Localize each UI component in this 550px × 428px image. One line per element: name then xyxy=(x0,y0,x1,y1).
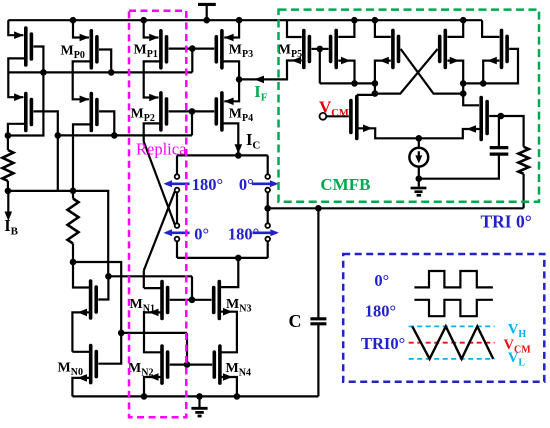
transistor MP4 xyxy=(220,93,224,130)
waveform dashed box xyxy=(343,254,544,382)
node VDD-stem xyxy=(203,17,210,24)
svg-text:0°: 0° xyxy=(374,271,389,290)
wire Tc5 drain xyxy=(483,61,499,84)
wire MP0 drain to T2 source xyxy=(73,61,92,99)
resistor R2 xyxy=(72,191,74,199)
wire MP2 drain xyxy=(144,123,161,141)
node MN0 gate bus xyxy=(118,330,125,337)
svg-text:MP4: MP4 xyxy=(229,106,253,124)
wire gate bus y73 xyxy=(8,71,192,73)
node VDD-MP1 xyxy=(140,17,147,24)
node VDD-MP3 xyxy=(236,17,243,24)
node VDD-Tc2 xyxy=(351,17,358,24)
wire MP1 gate xyxy=(169,47,193,49)
wire Tc5 gate diode xyxy=(463,49,518,84)
svg-text:0°: 0° xyxy=(239,175,254,194)
svg-text:180°: 180° xyxy=(192,175,223,194)
transistor Td2 (diff pair right) xyxy=(479,98,483,140)
switch contact L4 xyxy=(175,237,180,242)
wire MP4 drain / IC xyxy=(222,123,238,155)
svg-text:VCM: VCM xyxy=(319,97,349,119)
ground symbol bottom xyxy=(198,396,200,407)
wire switch lever B (to MN1 drain) xyxy=(144,191,175,270)
wire T1 gate to node B xyxy=(34,111,58,190)
node Tc5 drain xyxy=(480,80,487,87)
node D xyxy=(5,188,12,195)
arrow 180deg top-left xyxy=(166,183,190,186)
wire MP0 source xyxy=(73,20,89,37)
node IF xyxy=(236,76,243,83)
transistor MP0 xyxy=(90,31,94,68)
VDD supply symbol xyxy=(198,3,216,6)
svg-text:180°: 180° xyxy=(228,224,259,243)
node VDD-MP0 xyxy=(70,17,77,24)
wire MP5 gate xyxy=(312,48,320,50)
transistor T5 (NMOS above MN0) xyxy=(89,281,93,318)
ground symbol CMFB xyxy=(418,179,420,187)
wire Td2 gate to R3 xyxy=(501,116,524,147)
arrow 180deg bottom-right xyxy=(253,232,277,235)
svg-text:MN0: MN0 xyxy=(58,361,83,379)
wire MN3 source to MN4 drain xyxy=(219,312,237,353)
wire T5 gate xyxy=(98,276,108,299)
waveform 180deg square xyxy=(414,300,493,316)
wire T0 gate to bias bus and node A xyxy=(8,47,44,136)
node E xyxy=(70,188,77,195)
transistor MP3 xyxy=(220,31,224,68)
wire MN0 gate xyxy=(98,333,121,364)
node T0 gate on bus xyxy=(40,69,47,76)
wire MN0-gate bus y333 xyxy=(121,332,187,334)
svg-text:TRI0°: TRI0° xyxy=(361,334,405,353)
node VDD-Tc4 xyxy=(460,17,467,24)
arrow MP5 drain xyxy=(292,57,302,65)
wire MP1 source xyxy=(144,20,159,37)
svg-text:TRI 0°: TRI 0° xyxy=(481,212,532,232)
wire T0 source xyxy=(8,20,23,35)
wire T2 drain to node E xyxy=(73,124,91,190)
resistor R1 xyxy=(7,136,9,151)
wire cap2 top xyxy=(498,116,500,148)
transistor T1 (left cascode PMOS) xyxy=(24,94,28,131)
wire Tc4 gate cross-couple xyxy=(375,49,438,94)
wire Tc4 drain xyxy=(447,61,463,94)
svg-text:C: C xyxy=(289,311,302,331)
node MP1-MP3 gate xyxy=(189,45,196,52)
wire MN2 gate bus xyxy=(170,364,213,366)
svg-text:MN2: MN2 xyxy=(128,361,153,379)
svg-text:IB: IB xyxy=(4,216,18,238)
wire diode line y83 left xyxy=(320,82,375,84)
wire MN4 source xyxy=(220,377,237,396)
node MP5-Tc2 gate xyxy=(317,46,324,53)
wire tail to current source xyxy=(418,138,420,148)
node MP2-MP4 gate xyxy=(189,108,196,115)
switch contact R4 xyxy=(265,237,270,242)
wire cap2 bottom link xyxy=(419,154,499,179)
transistor T0 (top-left PMOS) xyxy=(24,28,28,65)
wire T1 drain to node A xyxy=(8,124,26,136)
wire link to MN0 gate bus xyxy=(73,262,121,333)
transistor T2 (second cascode PMOS) xyxy=(90,94,94,131)
node tail xyxy=(416,135,423,142)
node MN2 source on rail xyxy=(141,393,148,400)
wire switch bottom rail xyxy=(177,257,268,259)
current IB arrow xyxy=(7,191,9,217)
wire T5 drain xyxy=(73,262,91,288)
switch contact L1 xyxy=(175,174,180,179)
switch contact L3 xyxy=(175,223,180,228)
wire Tc3 drain xyxy=(375,61,391,94)
transistor MN2 xyxy=(160,346,164,383)
wire output line xyxy=(268,207,524,209)
svg-text:MP3: MP3 xyxy=(229,43,253,61)
wire Tc3 source xyxy=(375,20,391,37)
wire MP2 gate xyxy=(169,110,192,112)
node MN4 source on rail xyxy=(234,393,241,400)
wire Tc4 source xyxy=(447,20,463,37)
wire capacitor to ground rail xyxy=(317,324,319,397)
wire switch lever A (replica to 0deg switch) xyxy=(144,142,175,225)
current IF arrow xyxy=(254,76,264,84)
wire MP5 source xyxy=(287,20,302,37)
node R2 bottom xyxy=(70,259,77,266)
wire Tc2 drain xyxy=(338,61,354,84)
wire Td2 drain xyxy=(463,94,479,106)
wire MP4 gate xyxy=(192,110,214,112)
transistor Tc4 xyxy=(443,30,447,67)
wire Td2 gate xyxy=(489,115,501,117)
terminal VCM xyxy=(320,113,327,120)
svg-text:MP0: MP0 xyxy=(61,44,85,62)
wire MN1 gate bus xyxy=(170,299,212,301)
wire ground rail xyxy=(72,395,318,397)
switch contact R3 xyxy=(265,223,270,228)
svg-text:MP2: MP2 xyxy=(131,106,155,124)
svg-text:IF: IF xyxy=(254,82,267,104)
node diffpair left drain xyxy=(372,90,379,97)
transistor Tc2 xyxy=(334,30,338,67)
wire Td1 drain xyxy=(357,94,375,96)
wire IF line from MP5 drain xyxy=(239,61,302,80)
wire left switch column xyxy=(176,155,178,174)
wire MN2 source xyxy=(144,377,162,396)
transistor Td1 (diff pair left) xyxy=(355,97,359,139)
switch contact L2 xyxy=(175,188,180,193)
svg-text:IC: IC xyxy=(246,130,260,152)
transistor MN4 xyxy=(218,346,222,383)
wire Tc5 source xyxy=(482,20,499,37)
node ground tap xyxy=(196,393,203,400)
node switch bottom junction xyxy=(235,255,242,262)
wire bus y276 xyxy=(108,275,192,277)
node A xyxy=(5,132,12,139)
transistor MN3 xyxy=(218,282,222,319)
wire VDD rail xyxy=(8,19,482,21)
dashed level VL xyxy=(409,358,495,360)
wire Tc3 gate cross-couple xyxy=(401,49,464,94)
wire MP0 gate xyxy=(99,50,111,73)
wire Td1 source xyxy=(357,128,419,138)
wire MP1 drain to MP2 source xyxy=(144,61,161,97)
transistor MN0 xyxy=(89,346,93,383)
node MN2-MN4 gate xyxy=(184,361,191,368)
switch contact R2 xyxy=(265,188,270,193)
node MP0 gate on bus xyxy=(108,69,115,76)
svg-text:180°: 180° xyxy=(365,301,396,320)
current IC arrow xyxy=(235,144,243,154)
wire MN3 drain xyxy=(219,258,238,287)
svg-text:MP5: MP5 xyxy=(278,43,302,61)
wire Tc2 gate xyxy=(320,48,329,50)
transistor MP1 xyxy=(159,31,163,68)
waveform triangle xyxy=(412,326,493,359)
resistor R3 xyxy=(518,147,528,174)
CMFB dashed box xyxy=(279,10,540,202)
wire MP3 gate xyxy=(192,47,214,49)
svg-text:CMFB: CMFB xyxy=(320,175,370,194)
transistor MN1 xyxy=(160,282,164,319)
node C xyxy=(111,132,118,139)
wire current source to ground xyxy=(418,167,420,179)
wire MN1 source to MN2 drain xyxy=(144,312,162,352)
node IC junction xyxy=(235,152,242,159)
svg-text:Replica: Replica xyxy=(136,140,187,159)
transistor Tc5 xyxy=(500,30,504,67)
capacitor C2 xyxy=(490,153,509,156)
svg-text:0°: 0° xyxy=(194,224,209,243)
node diffpair right drain xyxy=(460,90,467,97)
wire MP4 source xyxy=(224,79,239,101)
arrow 0deg bottom-left xyxy=(166,232,190,235)
wire MP3 drain xyxy=(222,61,239,79)
capacitor C xyxy=(310,317,326,320)
wire Td2 source xyxy=(419,129,481,138)
node output-C junction xyxy=(315,205,322,212)
wire right switch column xyxy=(267,155,269,174)
transistor MP5 xyxy=(302,31,306,68)
node output tap xyxy=(264,205,271,212)
wire T5 source xyxy=(72,312,90,351)
wire T0 drain to T1 source xyxy=(8,58,26,97)
wire T2 gate to node C xyxy=(99,111,114,135)
node Tc2 drain xyxy=(351,80,358,87)
wire switch top rail xyxy=(177,154,268,156)
wire MN0 drain xyxy=(72,351,90,353)
switch contact R1 xyxy=(265,174,270,179)
transistor MP2 xyxy=(159,93,163,130)
wire Tc2 source xyxy=(338,20,354,37)
node MN1-MN3 gate xyxy=(189,297,196,304)
node VDD-Tc3 xyxy=(372,17,379,24)
node Td2 gate xyxy=(498,113,505,120)
node Tc4 drain xyxy=(460,80,467,87)
transistor Tc3 xyxy=(391,30,395,67)
arrow 0deg top-right xyxy=(252,183,276,186)
current source I1 xyxy=(409,148,428,167)
wire MN0 source xyxy=(72,378,90,397)
wire bias bus y191 xyxy=(8,191,108,276)
replica dashed box xyxy=(129,11,186,418)
svg-text:MP1: MP1 xyxy=(134,43,158,61)
node bus276 left xyxy=(105,273,112,280)
node B xyxy=(55,132,62,139)
node tail ground xyxy=(416,175,423,182)
wire MP3 source xyxy=(224,20,239,37)
wire output to capacitor xyxy=(317,208,319,318)
dashed level VCM xyxy=(409,342,495,344)
node Tc3 drain upper xyxy=(372,80,379,87)
wire cascode gate bus y135 xyxy=(58,134,192,136)
waveform 0deg square xyxy=(414,271,493,287)
wire MN1 drain xyxy=(144,287,162,289)
dashed level VH xyxy=(409,325,495,327)
